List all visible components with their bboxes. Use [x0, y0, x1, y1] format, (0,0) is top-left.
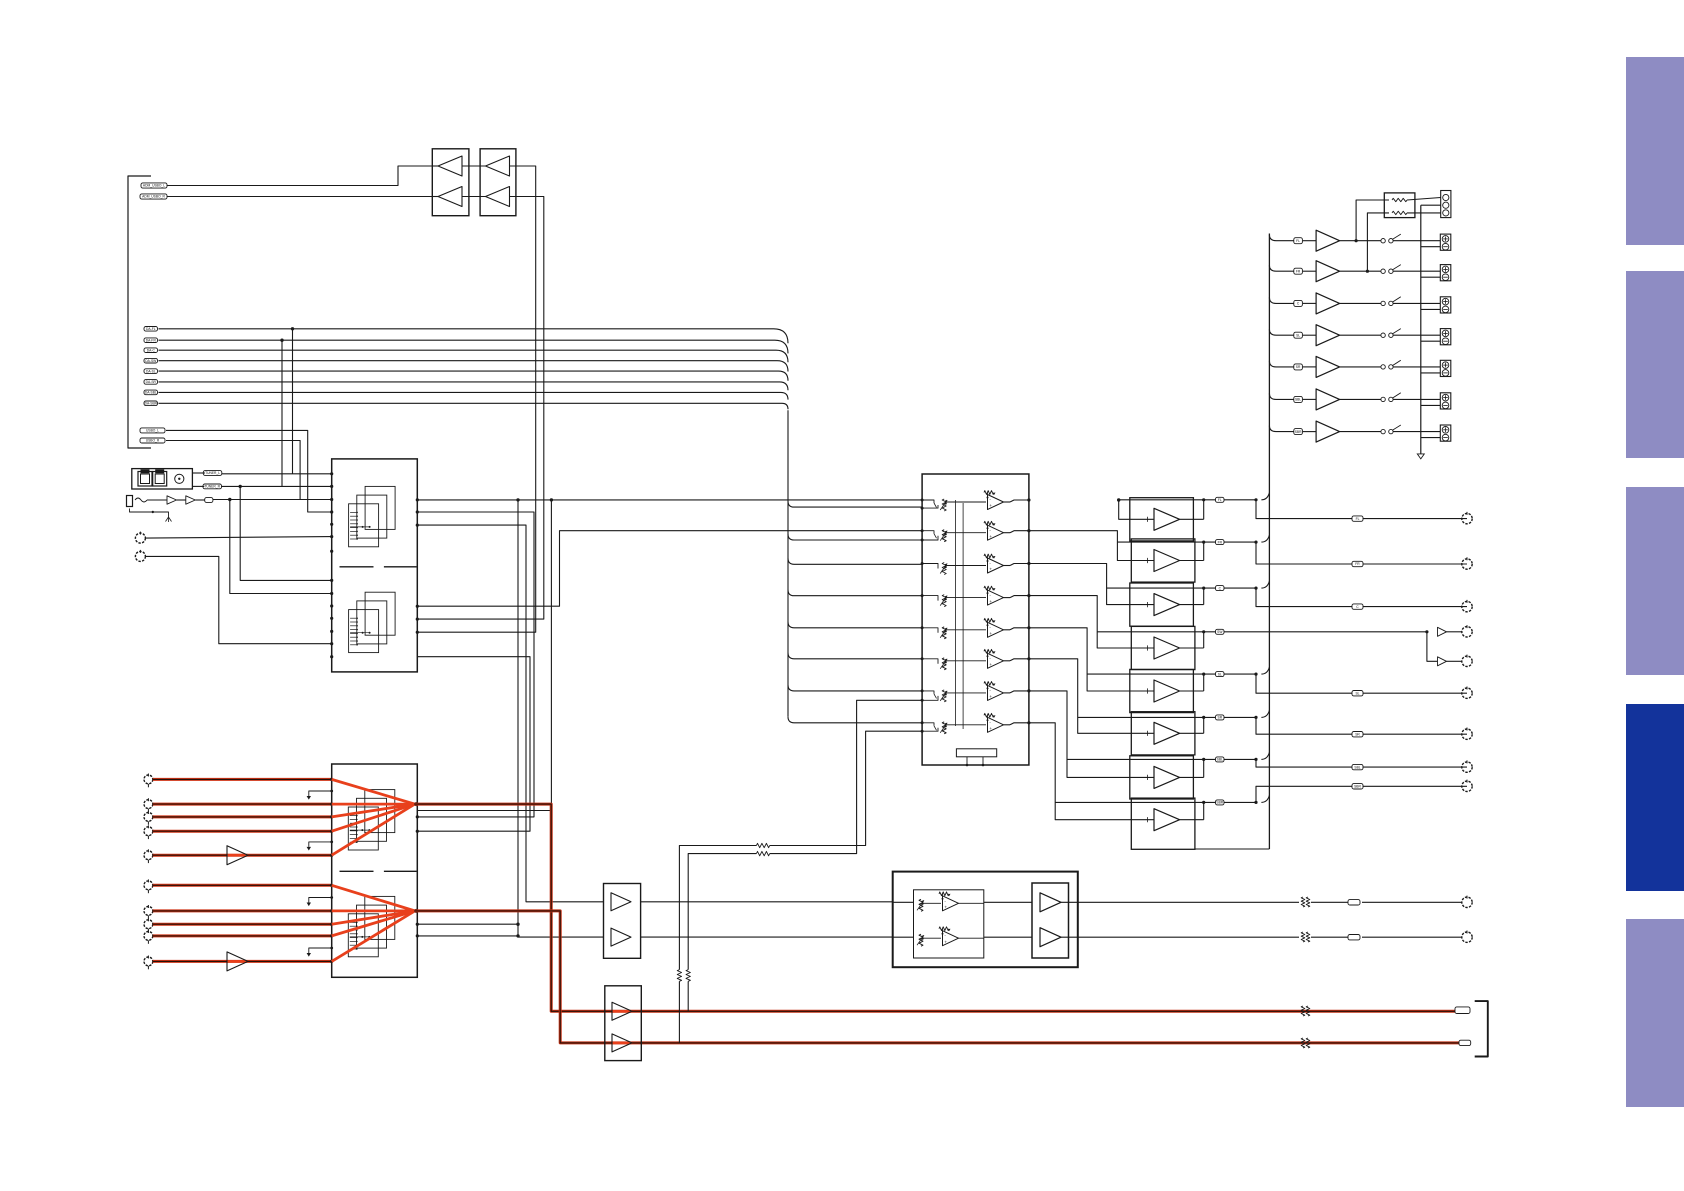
wire SW preout: [1256, 631, 1427, 633]
connector preout SBR: [1462, 781, 1472, 791]
wire DA bus peel: [788, 501, 922, 507]
wire bus A: [516, 498, 519, 501]
connector preout SL: [1462, 688, 1472, 698]
node amp tag C: [1216, 586, 1225, 591]
speaker terminal SL: [1440, 329, 1451, 345]
pin mark: [309, 791, 332, 796]
wire U2 out R down bus: [417, 197, 544, 620]
node preout tag SR: [1352, 732, 1363, 737]
wire zone R: [641, 936, 893, 938]
tuner antenna jacks: [132, 469, 193, 489]
svg-text:DA-FL: DA-FL: [146, 327, 156, 331]
resistor tap A: [677, 970, 681, 982]
bus entry FR: [1254, 541, 1257, 544]
wire amp feed 5: [1087, 673, 1256, 675]
svg-text:DA-SW: DA-SW: [145, 359, 157, 363]
node preout tag C: [1352, 604, 1363, 609]
speaker row SBL: [1269, 393, 1276, 399]
wire amp feed 2: [1117, 541, 1256, 543]
svg-text:SL: SL: [1218, 672, 1222, 676]
buffer rec L: [612, 1010, 632, 1013]
wire common SBL: [1421, 404, 1441, 406]
wire zone L: [641, 901, 893, 903]
wire bus F: [550, 498, 553, 501]
svg-text:ADM_USBO_R: ADM_USBO_R: [142, 195, 165, 199]
wire analog in 3: [153, 815, 332, 818]
svg-text:TUNER_R: TUNER_R: [204, 485, 220, 489]
wire analog in 8: [153, 923, 332, 926]
bus entry SL: [1254, 673, 1257, 676]
svg-text:FL: FL: [1356, 517, 1360, 521]
svg-text:DA-SBL: DA-SBL: [145, 391, 157, 395]
bus entry SBL: [1254, 758, 1257, 761]
zone pot/op-amp: [919, 934, 923, 946]
output bracket: [1475, 1001, 1488, 1056]
wire analog in 9: [153, 934, 332, 937]
svg-text:+: +: [989, 567, 992, 572]
pin mark: [309, 842, 332, 847]
power amp A5: [1130, 669, 1194, 712]
wire ADM_USBO_R to buffer: [167, 196, 432, 198]
wire DA bus peel: [788, 590, 922, 596]
speaker amp FL: [1316, 230, 1340, 251]
wire bus B: [417, 525, 603, 902]
svg-text:+: +: [989, 662, 992, 667]
wire selector pin to bus A: [516, 923, 519, 926]
wire analog out 1: [415, 804, 1459, 1011]
ferrite rec L: [1301, 1006, 1305, 1016]
wire amp feed 1: [1119, 499, 1256, 501]
red fan group 2: [332, 885, 415, 911]
wire amp 2 out: [1180, 560, 1204, 562]
power amp A1: [1130, 498, 1194, 541]
wire DA-FR: [159, 340, 789, 353]
bus entry SBR: [1254, 801, 1257, 804]
zone attenuator box: [914, 890, 984, 958]
relay switch SR: [1381, 365, 1385, 369]
zone pot/op-amp: [919, 899, 923, 911]
speaker row SL: [1269, 329, 1276, 335]
ferrite L: [1301, 897, 1305, 907]
speaker row FL: [1269, 235, 1276, 241]
buffer analog A: [227, 854, 248, 857]
wire DA-SW: [159, 361, 789, 372]
wire rec tap upper: [770, 731, 922, 845]
wire DA bus vertical: [787, 410, 789, 717]
svg-text:+: +: [944, 939, 947, 944]
zone amp box: [1032, 883, 1069, 958]
selector separator: [340, 870, 374, 872]
zone amp R: [1040, 928, 1061, 947]
svg-text:USBO_R: USBO_R: [146, 439, 160, 443]
node REC_R: [1459, 1040, 1471, 1045]
node TUNER_L: [203, 471, 222, 476]
DSP left pins: [330, 472, 333, 475]
page tab 3: [1626, 487, 1684, 675]
volume row 8: [921, 721, 924, 724]
power amp A6: [1131, 712, 1195, 755]
node DA-SW: [144, 358, 158, 363]
wire USBO_R: [166, 441, 332, 500]
resistor R2: [1392, 211, 1407, 214]
buffer SW b: [1438, 657, 1447, 666]
3pin terminal: [1441, 191, 1451, 218]
node USBO_L: [140, 428, 165, 433]
volume control block U4: [922, 474, 1029, 765]
svg-text:USBO_L: USBO_L: [146, 429, 159, 433]
wire DA bus peel: [788, 653, 922, 659]
buffer jack B: [186, 496, 196, 504]
wire U1-U2 links: [462, 165, 486, 167]
svg-text:+: +: [989, 631, 992, 636]
volume row 4: [921, 594, 924, 597]
node preout tag SBL: [1352, 764, 1363, 769]
volume row 6: [921, 657, 924, 660]
svg-text:+: +: [989, 726, 992, 731]
power amp A4: [1131, 626, 1195, 669]
wire R2 right: [1407, 212, 1441, 214]
wire amp 7 out: [1180, 776, 1204, 778]
ground chassis: [1417, 454, 1424, 459]
wire volume out 4 to amp: [1029, 596, 1154, 648]
wire analog in 5: [153, 854, 332, 857]
analog selector block U5: [332, 764, 418, 977]
wire DA-SR: [159, 382, 789, 390]
svg-text:+: +: [944, 905, 947, 910]
wire R1 right: [1407, 198, 1441, 201]
node DA-SBR: [144, 401, 158, 406]
wire common SL: [1421, 340, 1441, 342]
volume internal bus: [955, 500, 957, 726]
connector analog in 3: [144, 813, 153, 822]
connector preout FL: [1462, 513, 1472, 523]
volume row 2: [921, 529, 924, 532]
speaker amp SBR: [1316, 421, 1340, 442]
wire jack to DSP: [213, 499, 332, 501]
wire DA-SL: [159, 371, 789, 381]
node preout tag FR: [1352, 561, 1363, 566]
relay switch C: [1381, 301, 1385, 305]
bus entry SR: [1254, 716, 1257, 719]
wire common SR: [1421, 372, 1441, 374]
svg-text:FL: FL: [1218, 498, 1222, 502]
wire analog in 6: [153, 884, 332, 887]
connector preout SR: [1462, 729, 1472, 739]
relay switch FR: [1381, 269, 1385, 273]
svg-text:SL: SL: [1355, 691, 1359, 695]
wire common SBR: [1421, 437, 1441, 439]
connector analog in 9: [144, 932, 153, 941]
wire preout SL: [1256, 674, 1467, 693]
wire amp 6 out: [1180, 732, 1204, 734]
svg-text:DA-SR: DA-SR: [146, 380, 157, 384]
node preout tag FL: [1352, 516, 1363, 521]
wire TUNER_R: [192, 485, 204, 487]
wire bus C: [417, 512, 534, 817]
svg-text:SW: SW: [1217, 630, 1223, 634]
wire amp feed 7: [1067, 758, 1256, 760]
wire DA bus peel: [788, 558, 922, 564]
svg-text:SL: SL: [1296, 333, 1300, 337]
svg-text:SBR: SBR: [1354, 785, 1361, 789]
node amp tag SBL: [1216, 757, 1225, 762]
DSP chip icon A: [365, 486, 395, 529]
resistor R1: [1392, 198, 1407, 201]
volume row 3: [921, 562, 924, 565]
page tab 4 (active): [1626, 704, 1684, 891]
wire USBO_L: [166, 430, 332, 512]
connector analog in 4: [144, 827, 153, 836]
wire preout SR: [1256, 717, 1467, 734]
wire volume out 5 to amp: [1029, 628, 1154, 691]
wire analog in 4: [153, 830, 332, 833]
connector analog in 6: [144, 881, 153, 890]
node ADM_USBO_L: [141, 183, 167, 188]
connector analog in 10: [144, 957, 153, 966]
wire bus G: [417, 531, 922, 607]
buffer box rec U7: [605, 986, 642, 1061]
node amp tag FR: [1216, 540, 1225, 545]
svg-text:DA-SBR: DA-SBR: [145, 402, 158, 406]
wire amp feed 3: [1107, 587, 1256, 589]
svg-text:SBR: SBR: [1216, 801, 1223, 805]
svg-text:SBR: SBR: [1295, 430, 1302, 434]
node JACK: [205, 498, 213, 503]
wire DA-SBL: [159, 392, 789, 399]
svg-text:ADM_USBO_L: ADM_USBO_L: [143, 184, 165, 188]
DSP separator: [340, 566, 374, 568]
pin mark: [309, 898, 332, 903]
node USBO_R: [140, 438, 165, 443]
pin mark: [309, 948, 332, 953]
bus entry FL: [1254, 498, 1257, 501]
buffer U2: [480, 149, 516, 216]
wire common C: [1421, 308, 1441, 310]
wire AUX1: [145, 537, 331, 539]
node TUNER_R: [203, 484, 222, 489]
speaker terminal SR: [1440, 360, 1451, 376]
wire volume out 7 to amp: [1029, 691, 1154, 778]
relay switch SBL: [1381, 397, 1385, 401]
wire amp 4 out: [1180, 647, 1204, 649]
wire R1 left: [1355, 239, 1358, 242]
power amp A8: [1131, 798, 1195, 849]
DSP chip icon B: [365, 592, 395, 635]
connector ZONE_R: [1462, 932, 1472, 942]
wire analog out 2: [415, 911, 1459, 1043]
page tab 2: [1626, 271, 1684, 458]
wire common FR: [1421, 276, 1441, 278]
node zone tag L: [1348, 900, 1360, 905]
svg-text:SR: SR: [1355, 732, 1360, 736]
speaker terminal SBL: [1440, 393, 1451, 409]
svg-text:+: +: [989, 694, 992, 699]
connector AUX2: [135, 551, 145, 561]
DSP right pins: [416, 498, 419, 501]
speaker row FR: [1269, 265, 1276, 271]
ferrite R: [1301, 932, 1305, 942]
wire volume out 3 to amp: [1029, 564, 1154, 605]
wire preout FL: [1256, 500, 1467, 519]
node amp tag SBR: [1216, 800, 1225, 805]
connector SW a: [1462, 627, 1472, 637]
volume row 5: [921, 626, 924, 629]
bus entry C: [1254, 587, 1257, 590]
wire common FL: [1421, 246, 1441, 248]
volume bottom ref: [956, 749, 996, 757]
speaker amp SL: [1316, 325, 1340, 346]
wire volume out 8 to amp: [1029, 723, 1154, 820]
wire DA-FL tap to DSP: [291, 327, 294, 330]
wire amp 1 out: [1180, 518, 1204, 520]
node amp tag SL: [1216, 672, 1225, 677]
wire preout FR: [1256, 542, 1467, 564]
wire amp feed 8: [1055, 801, 1256, 803]
node zone tag R: [1348, 935, 1360, 940]
wire DA bus peel: [788, 622, 922, 628]
connector ZONE_L: [1462, 897, 1472, 907]
wire analog in 1: [153, 778, 332, 781]
volume row 1: [921, 499, 924, 502]
speaker amp FR: [1316, 261, 1340, 282]
wire SW b: [1427, 632, 1438, 662]
svg-text:FR: FR: [1218, 540, 1223, 544]
wire ADM_USBO_L to buffer: [167, 166, 432, 186]
bracket: digital input group: [128, 176, 151, 448]
node amp tag FL: [1216, 497, 1225, 502]
svg-text:FL: FL: [1296, 239, 1300, 243]
wire preout SBR: [1256, 786, 1467, 802]
wire amp feed 6: [1078, 716, 1256, 718]
selector right pins: [416, 815, 419, 818]
svg-text:DA-SL: DA-SL: [146, 369, 156, 373]
speaker terminal FL: [1440, 234, 1451, 250]
buffer U1: [432, 149, 469, 216]
relay switch SL: [1381, 333, 1385, 337]
wire volume out 6 to amp: [1029, 659, 1154, 734]
connector preout SBL: [1462, 762, 1472, 772]
power amp A2: [1131, 539, 1195, 582]
node REC_L: [1455, 1007, 1470, 1014]
wire DA bus peel: [788, 534, 922, 540]
relay switch FL: [1381, 239, 1385, 243]
svg-text:SBL: SBL: [1354, 765, 1360, 769]
DSP block U3: [332, 459, 418, 672]
connector analog in 1: [144, 775, 153, 784]
wire amp 3 out: [1180, 604, 1204, 606]
wire preout C: [1256, 588, 1467, 607]
svg-text:DA-FR: DA-FR: [146, 338, 157, 342]
svg-text:SR: SR: [1296, 365, 1301, 369]
zobel resistor box: [1384, 193, 1415, 218]
wire bus H: [417, 657, 530, 832]
wire AUX2: [145, 556, 331, 643]
node ADM_USBO_R: [140, 194, 167, 199]
selector chip icon A: [365, 790, 395, 833]
connector analog in 7: [144, 907, 153, 916]
page tab 1: [1626, 57, 1684, 245]
wire preout SBL: [1256, 759, 1467, 767]
wire TUNER_R branch: [239, 485, 242, 488]
relay switch SBR: [1381, 429, 1385, 433]
wire U2 out L down bus: [417, 166, 535, 632]
wire R2 left: [1366, 270, 1369, 273]
resistor tap B: [686, 970, 690, 982]
connector preout FR: [1462, 559, 1472, 569]
selector chip icon B: [365, 896, 395, 939]
node amp tag SR: [1216, 715, 1225, 720]
node amp tag SW: [1216, 629, 1225, 634]
buffer rec R: [612, 1042, 632, 1045]
svg-text:DA-C: DA-C: [147, 348, 156, 352]
speaker common bus: [1420, 205, 1422, 454]
buffer jack A: [167, 496, 177, 504]
page tab 5: [1626, 919, 1684, 1107]
svg-text:TUNER_L: TUNER_L: [205, 471, 220, 475]
wire amp feed 4: [1097, 631, 1256, 633]
svg-text:+: +: [989, 503, 992, 508]
wire volume out 2 to amp: [1029, 531, 1154, 561]
node DA-SR: [144, 380, 158, 385]
buffer analog B: [227, 960, 248, 963]
wire DA-C: [159, 350, 789, 362]
wire zone out R: [893, 936, 914, 938]
speaker terminal C: [1440, 297, 1451, 313]
connector analog in 8: [144, 920, 153, 929]
connector analog in 5: [144, 851, 153, 860]
wire DA bus peel: [788, 685, 922, 691]
node preout tag SL: [1352, 691, 1363, 696]
power amp A3: [1130, 583, 1194, 626]
speaker row SR: [1269, 361, 1276, 367]
wire DA-FR tap to DSP: [280, 339, 283, 342]
svg-text:SBL: SBL: [1295, 398, 1301, 402]
red fan group 1: [332, 779, 415, 804]
buffer box zone U6: [604, 884, 641, 959]
ferrite rec R: [1301, 1038, 1305, 1048]
wire amp 8 out: [1180, 819, 1204, 821]
speaker bus: [1268, 234, 1270, 850]
node DA-FR: [144, 338, 158, 343]
wire common top: [1421, 204, 1441, 206]
connector AUX1: [135, 533, 145, 543]
connector SW b: [1462, 656, 1472, 666]
wire DSP out 1 to volume: [417, 499, 922, 501]
speaker amp C: [1316, 293, 1340, 314]
phone jack: [127, 496, 133, 507]
speaker row SBR: [1269, 426, 1276, 432]
connector preout C: [1462, 601, 1472, 611]
node DA-SBL: [144, 390, 158, 395]
wire amp 5 out: [1180, 690, 1204, 692]
buffer SW a: [1438, 627, 1447, 636]
wire DA-SBR: [159, 403, 789, 409]
wire rec tap lower: [770, 700, 922, 853]
connector analog in 2: [144, 800, 153, 809]
svg-text:SR: SR: [1218, 716, 1223, 720]
power amp A7: [1130, 756, 1194, 799]
wire zone out L: [893, 901, 914, 903]
wire DA-FL: [159, 329, 789, 343]
wire analog in 10: [153, 960, 332, 963]
speaker terminal FR: [1440, 265, 1451, 281]
wire DA bus peel: [788, 717, 922, 723]
wire analog in 7: [153, 909, 332, 912]
node DA-FL: [144, 327, 158, 332]
svg-text:FR: FR: [1296, 269, 1301, 273]
svg-text:+: +: [989, 534, 992, 539]
volume row 7: [921, 689, 924, 692]
